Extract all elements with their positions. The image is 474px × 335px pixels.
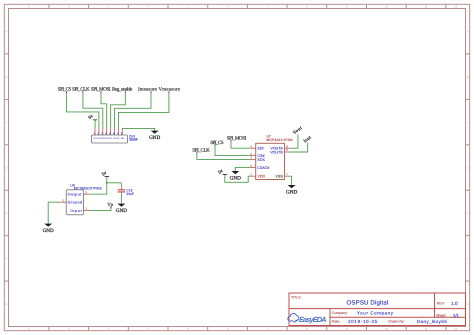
net label Vp [107,202,113,208]
svg-text:Reg_enable: Reg_enable [112,86,133,92]
svg-text:GND: GND [286,189,297,195]
U6 body [66,190,83,215]
svg-text:Date:: Date: [332,320,340,324]
svg-text:2019-10-25: 2019-10-25 [348,319,378,324]
svg-text:1.0: 1.0 [451,301,458,306]
net label SPI_CLK [72,86,90,93]
net label SPI_CS (U7) [210,140,224,146]
wire SPI_MOSI to CN1 pin 4 [101,93,107,128]
svg-text:VDD: VDD [257,175,265,179]
wire Reg_enable to CN1 pin 5 [111,93,126,128]
svg-text:11: 11 [424,327,427,331]
svg-text:IM: IM [109,137,112,140]
svg-text:12: 12 [454,327,458,331]
svg-text:33uF: 33uF [126,192,134,196]
svg-text:Sheet:: Sheet: [436,313,446,317]
svg-text:E: E [5,211,7,215]
svg-text:OSPSU Digital: OSPSU Digital [347,300,389,307]
wire SPI_CS to CN1 pin 2 [66,93,99,128]
svg-text:GND: GND [149,135,160,141]
svg-text:Dany_Boy55: Dany_Boy55 [417,319,448,324]
wire U7 VOUTB to Iout [290,143,308,152]
U7 left pins 4 SDI, 2 CS#, 3 SCK, 5 LDAC#, 1 VDD [250,147,256,149]
ground GND at U7 LDAC# [230,171,241,181]
ground GND at CN1 [149,131,160,141]
wire U7 LDAC# to GND [235,168,250,171]
net label SPI_MOSI [91,86,111,93]
svg-text:F: F [467,257,469,261]
wire 5v to CN1 pin 1 [94,120,96,128]
wire SPI_CS to U7 CS# [215,146,250,156]
capacitor C19 33uF [118,187,134,196]
svg-text:11: 11 [424,5,427,9]
svg-text:SCK: SCK [257,158,265,162]
wire U6 output to 5v and C19 [89,177,121,195]
junction dot at U6 output node [106,182,108,184]
wire CN1 pin 8 to GND [122,128,154,130]
wire U7 VSS to GND [290,176,292,185]
svg-text:10: 10 [385,5,389,9]
net label Imeasure [138,86,158,93]
svg-text:SPI_CS: SPI_CS [210,140,224,146]
net flag Vout [292,125,304,136]
svg-text:MCP4822-E/SN: MCP4822-E/SN [267,138,294,142]
svg-text:Imeasure: Imeasure [138,86,158,92]
net label SPI_MOSI (U7) [227,136,247,142]
IC U7 MCP4822-E/SN DAC [250,135,293,180]
svg-text:F: F [5,257,7,261]
net label Reg_enable [112,86,133,93]
ground GND below U6 [43,224,54,235]
svg-text:GN: GN [121,137,125,140]
title block [289,293,466,326]
svg-text:25015-8P: 25015-8P [129,138,138,142]
svg-text:TITLE:: TITLE: [291,295,302,299]
svg-text:Output: Output [68,193,82,197]
svg-text:EasyEDA: EasyEDA [299,315,327,324]
svg-text:10: 10 [385,327,389,331]
svg-text:B: B [5,75,7,79]
svg-text:B: B [467,75,469,79]
wire SPI_MOSI to U7 SDI [231,142,250,148]
ground GND at U7 VSS [286,185,297,195]
wire C19 to GND [120,195,122,203]
svg-text:Vp: Vp [107,202,113,208]
net label SPI_CS [58,86,72,93]
svg-text:Your Company: Your Company [357,311,394,316]
connector CN1 25015-8P [92,128,139,143]
svg-text:Drawn By:: Drawn By: [388,320,404,324]
svg-text:12: 12 [454,5,458,9]
svg-text:VSS: VSS [275,175,283,179]
net flag Iout [302,134,312,143]
EasyEDA logo [288,313,327,323]
regulator U6 MC7805CDTRKG [61,183,102,214]
CN1 pins 1-8 [94,128,96,135]
svg-text:A: A [5,29,7,33]
wire SPI_CLK to CN1 pin 3 [83,93,103,128]
svg-text:Vmeasure: Vmeasure [159,86,181,92]
power flag 5v at U6 output [101,170,109,177]
svg-text:1/1: 1/1 [453,313,460,318]
svg-text:VOUTB: VOUTB [270,150,283,154]
svg-text:LDAC#: LDAC# [257,166,270,170]
wire Vmeasure to CN1 pin 7 [118,93,168,128]
U7 right pins 8 VOUTA, 6 VOUTB, 7 VSS [285,147,291,149]
wire U6 ground pin to GND [48,202,61,223]
svg-text:SDI: SDI [257,147,263,151]
wire U7 VOUTA to Vout [290,134,298,148]
power flag 5v at CN1 pin 1 [87,113,97,120]
svg-text:Ground: Ground [68,201,83,205]
power flag 5v at U7 VDD [217,168,227,175]
svg-text:5V: 5V [117,137,120,140]
svg-text:GND: GND [43,228,54,234]
wire U7 VDD to 5v [225,175,250,183]
net label SPI_CLK (U7) [192,147,210,153]
ground GND below C19 [116,204,127,214]
svg-text:A: A [467,29,469,33]
wire SPI_CLK to U7 SCK [197,154,250,160]
wire Vp to U6 input [89,208,111,210]
svg-text:GND: GND [230,175,241,181]
svg-text:Input: Input [71,209,82,213]
wire Imeasure to CN1 pin 6 [115,93,152,128]
U6 pin 3 Output, pin 2 Ground, pin 1 Input [84,193,90,195]
U7 body [256,143,285,179]
svg-text:Company:: Company: [332,311,348,315]
svg-text:SPI_MOSI: SPI_MOSI [227,136,247,142]
svg-text:GND: GND [116,208,127,214]
svg-text:SPI_CS: SPI_CS [58,86,72,92]
net label Vmeasure [159,86,181,93]
svg-text:SPI_CLK: SPI_CLK [72,86,90,92]
svg-text:REV:: REV: [437,301,445,305]
svg-text:E: E [467,211,469,215]
junction dot at CN1 pin 1 5v node [94,120,96,122]
svg-text:SPI_CLK: SPI_CLK [192,147,210,153]
